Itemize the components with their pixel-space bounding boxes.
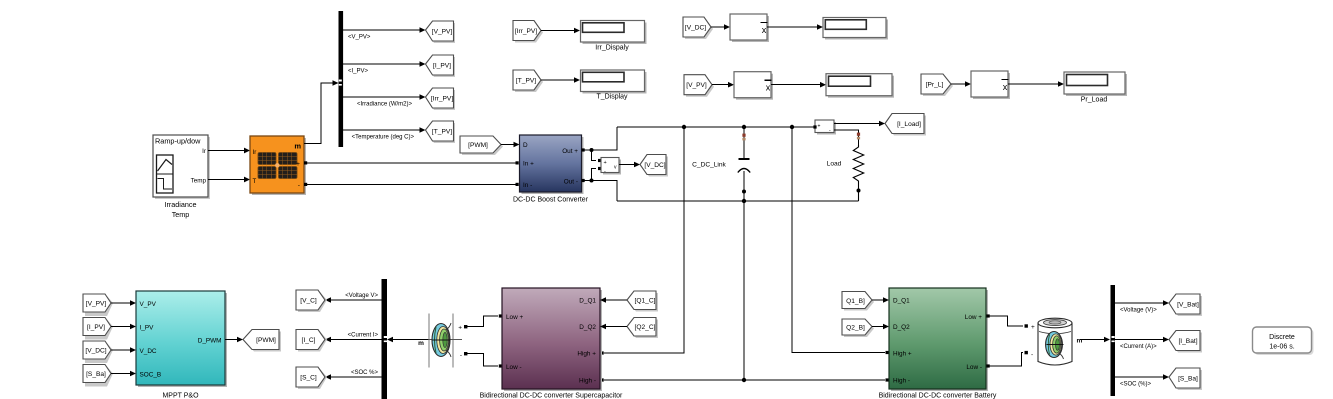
svg-text:<Temperature (deg C)>: <Temperature (deg C)> xyxy=(352,135,415,141)
bus selector 3 (battery measurements) xyxy=(1111,285,1116,396)
svg-text:D_Q2: D_Q2 xyxy=(579,324,596,331)
svg-text:Low -: Low - xyxy=(966,364,982,371)
wire DC link bottom bus xyxy=(617,200,859,202)
mean block U_mean2 xyxy=(734,72,773,100)
goto tag V_Bat xyxy=(1169,294,1202,316)
svg-text:I_PV: I_PV xyxy=(140,324,155,331)
svg-text:D: D xyxy=(523,142,528,149)
svg-text:m: m xyxy=(294,142,301,151)
svg-text:[I_C]: [I_C] xyxy=(302,337,316,344)
goto tag V_PV xyxy=(426,21,456,43)
wire I_PV to MPPT xyxy=(111,324,136,330)
svg-text:Low +: Low + xyxy=(965,314,982,321)
wire Q1_C to D_Q1 xyxy=(600,297,627,303)
wire capacitor leg down to High- rail xyxy=(743,201,745,380)
svg-text:<Current I>: <Current I> xyxy=(348,333,379,339)
from tag V_DC (top) xyxy=(683,17,713,39)
capacitor C_DC_Link xyxy=(692,127,750,201)
svg-text:Ir: Ir xyxy=(202,148,206,155)
mean block U_mean1 xyxy=(730,14,769,42)
bus selector 1 xyxy=(339,11,344,147)
svg-text:D_PWM: D_PWM xyxy=(198,337,222,344)
wire battery m to bus3 xyxy=(1077,337,1111,345)
wire CM to load resistor xyxy=(834,130,860,145)
from tag PWM (top) xyxy=(460,136,503,155)
wire bus3 SOC to S_Ba xyxy=(1115,374,1169,387)
from tag S_Ba (mppt) xyxy=(83,365,113,387)
goto tag V_C xyxy=(296,290,327,312)
svg-text:Low -: Low - xyxy=(506,364,522,371)
goto tag I_Load xyxy=(885,114,926,136)
svg-text:<I_PV>: <I_PV> xyxy=(348,69,369,75)
svg-text:Out -: Out - xyxy=(564,178,578,185)
wire V_DC to mean xyxy=(711,24,730,30)
wire bus2 Voltage to V_C xyxy=(325,293,382,303)
wire battery Low- to battery - xyxy=(987,351,1034,368)
from tag Q1_C xyxy=(627,291,658,312)
svg-text:D_Q1: D_Q1 xyxy=(893,297,910,304)
battery B1 xyxy=(1038,318,1072,365)
MPPT P&O block xyxy=(136,291,227,399)
goto tag Irr_PV xyxy=(426,88,456,110)
svg-text:[V_DC]: [V_DC] xyxy=(85,348,106,355)
svg-text:T: T xyxy=(253,178,257,185)
bus selector 2 (supercap measurements) xyxy=(382,279,388,399)
svg-text:[PWM]: [PWM] xyxy=(256,337,276,344)
wire PWM to boost D xyxy=(501,142,520,148)
DC-DC Boost Converter block xyxy=(513,135,589,204)
svg-text:+: + xyxy=(604,160,607,166)
node bottom bus / capacitor xyxy=(742,199,746,203)
svg-text:m: m xyxy=(418,340,424,347)
goto tag V_DC xyxy=(640,155,668,177)
svg-text:[V_DC]: [V_DC] xyxy=(644,162,665,169)
display V_PV mean xyxy=(826,74,894,98)
display V_DC mean xyxy=(823,18,888,40)
svg-text:+: + xyxy=(296,161,300,168)
svg-text:V_PV: V_PV xyxy=(140,301,157,308)
svg-text:D_Q1: D_Q1 xyxy=(579,297,596,304)
node top bus / capacitor xyxy=(742,125,746,129)
svg-text:x: x xyxy=(762,25,767,35)
svg-text:Discrete: Discrete xyxy=(1269,334,1295,341)
svg-text:[V_C]: [V_C] xyxy=(300,298,317,305)
wire mean2 to display xyxy=(771,82,826,88)
svg-text:[Irr_PV]: [Irr_PV] xyxy=(431,96,454,103)
wire supercap - to Low- xyxy=(460,352,502,368)
svg-text:[S_Ba]: [S_Ba] xyxy=(86,371,106,378)
svg-text:[V_DC]: [V_DC] xyxy=(685,25,706,32)
svg-text:[I_Load]: [I_Load] xyxy=(897,121,921,128)
resistor Load xyxy=(827,145,864,201)
svg-text:<Voltage (V)>: <Voltage (V)> xyxy=(1120,308,1157,314)
wire mean3 to display Pr_Load xyxy=(1008,81,1064,87)
from tag Pr_L xyxy=(921,74,953,96)
svg-text:Pr_Load: Pr_Load xyxy=(1081,97,1108,104)
wire DC link top bus xyxy=(617,126,815,128)
svg-text:Out +: Out + xyxy=(562,148,578,155)
svg-text:<Current (A)>: <Current (A)> xyxy=(1120,344,1157,350)
svg-text:Q2_B]: Q2_B] xyxy=(846,324,865,331)
svg-text:T_Display: T_Display xyxy=(596,94,628,101)
goto tag S_Ba xyxy=(1169,368,1202,390)
wire Pr_L to mean xyxy=(951,81,971,87)
svg-text:High +: High + xyxy=(893,350,912,357)
svg-text:High -: High - xyxy=(579,377,596,384)
goto tag PWM xyxy=(243,330,281,352)
wire Temp to PV xyxy=(208,177,250,183)
svg-text:Load: Load xyxy=(827,161,842,168)
svg-text:[T_PV]: [T_PV] xyxy=(516,78,536,85)
from tag Q2_C xyxy=(627,318,658,339)
svg-text:Q1_B]: Q1_B] xyxy=(846,298,865,305)
svg-text:-: - xyxy=(604,169,606,175)
svg-text:Irradiance: Irradiance xyxy=(165,200,197,209)
svg-text:[S_C]: [S_C] xyxy=(300,375,317,382)
svg-text:-: - xyxy=(1031,352,1033,359)
from tag V_PV (mppt) xyxy=(83,294,113,316)
goto tag I_Bat xyxy=(1169,331,1202,353)
svg-text:1e-06 s.: 1e-06 s. xyxy=(1269,344,1294,351)
wire supercap high leg (top bus down to High+) xyxy=(601,127,685,355)
svg-text:[S_Ba]: [S_Ba] xyxy=(1178,376,1198,383)
wire bus1 Irradiance xyxy=(343,94,426,107)
display Pr_Load xyxy=(1064,72,1127,104)
wire Irr_PV to display xyxy=(541,28,580,34)
svg-text:D_Q2: D_Q2 xyxy=(893,324,910,331)
wire V_DC to MPPT xyxy=(111,347,136,353)
PV Array block xyxy=(250,136,306,195)
goto tag I_PV xyxy=(426,55,456,77)
svg-text:High +: High + xyxy=(577,350,596,357)
wire branch to voltmeter - xyxy=(592,167,602,181)
wire PV m to bus selector xyxy=(304,80,339,143)
svg-text:V_DC: V_DC xyxy=(140,348,157,355)
from tag Q2_B xyxy=(842,319,874,337)
svg-text:Irr_Dispaly: Irr_Dispaly xyxy=(595,45,629,52)
wire V_PV to MPPT xyxy=(111,300,136,306)
wire VM to V_DC tag xyxy=(619,162,640,168)
svg-text:<Irradiance (W/m2)>: <Irradiance (W/m2)> xyxy=(357,102,413,108)
svg-text:<V_PV>: <V_PV> xyxy=(348,35,371,41)
wire branch to voltmeter + xyxy=(592,150,602,162)
svg-text:In -: In - xyxy=(523,182,532,189)
node top bus / battery leg xyxy=(790,125,794,129)
Discrete solver block xyxy=(1253,327,1314,355)
wire bus3 Voltage to V_Bat xyxy=(1115,300,1169,313)
from tag V_PV (top) xyxy=(684,75,714,97)
wire Ir to PV xyxy=(208,148,250,154)
wire High- rail between converters xyxy=(601,378,889,381)
wire bus1 I_PV xyxy=(343,61,426,74)
svg-text:[I_Bat]: [I_Bat] xyxy=(1178,338,1197,345)
wire bus1 Temperature xyxy=(343,127,426,140)
goto tag T_PV xyxy=(426,121,456,143)
wire Q2_C to D_Q2 xyxy=(600,324,627,330)
display Irr_Dispaly xyxy=(581,21,647,52)
from tag T_PV xyxy=(513,70,543,92)
node High- rail xyxy=(742,378,746,382)
svg-text:[T_PV]: [T_PV] xyxy=(432,129,452,136)
svg-text:[Q2_C]: [Q2_C] xyxy=(635,324,656,331)
Bidirectional DC-DC converter Supercapacitor block xyxy=(480,288,623,399)
wire CM i to I_Load tag xyxy=(834,121,885,127)
wire supercap m to bus2 xyxy=(387,337,429,347)
svg-text:[V_Bat]: [V_Bat] xyxy=(1177,302,1199,309)
wire bus2 SOC to S_C xyxy=(325,370,382,380)
svg-text:SOC_B: SOC_B xyxy=(140,371,162,378)
current measurement CM xyxy=(813,120,836,135)
svg-text:MPPT P&O: MPPT P&O xyxy=(162,393,199,399)
svg-text:<Voltage V>: <Voltage V> xyxy=(345,293,378,299)
svg-text:In +: In + xyxy=(523,161,534,168)
svg-text:m: m xyxy=(1077,337,1083,344)
node top bus / supercap leg xyxy=(682,125,686,129)
svg-text:DC-DC Boost Converter: DC-DC Boost Converter xyxy=(513,197,589,204)
svg-text:High -: High - xyxy=(893,377,910,384)
svg-text:Bidirectional DC-DC converter: Bidirectional DC-DC converter Battery xyxy=(879,393,997,399)
goto tag I_C xyxy=(296,330,327,352)
svg-text:[Irr_PV]: [Irr_PV] xyxy=(515,28,538,35)
supercapacitor SC1 xyxy=(429,314,462,368)
wire battery Low+ to battery + xyxy=(987,314,1036,331)
from tag I_PV (mppt) xyxy=(83,318,113,340)
wire MPPT D_PWM to PWM tag xyxy=(225,337,243,343)
wire Q1_B to D_Q1 xyxy=(872,297,889,303)
wire battery high leg (top bus down to High+) xyxy=(792,127,889,354)
svg-text:Bidirectional DC-DC converter: Bidirectional DC-DC converter Supercapac… xyxy=(480,393,623,399)
svg-text:[V_PV]: [V_PV] xyxy=(86,301,107,308)
Bidirectional DC-DC converter Battery block xyxy=(879,288,997,399)
svg-text:Temp: Temp xyxy=(172,210,190,219)
svg-text:Ir: Ir xyxy=(253,149,257,156)
svg-text:[I_PV]: [I_PV] xyxy=(433,63,451,70)
svg-text:Ramp-up/dow: Ramp-up/dow xyxy=(155,137,201,146)
svg-text:<SOC (%)>: <SOC (%)> xyxy=(1120,382,1152,388)
voltage measurement VM xyxy=(601,158,621,175)
wire boost Out- to DC link xyxy=(582,179,618,202)
wire V_PV to mean xyxy=(712,82,734,88)
goto tag S_C xyxy=(296,367,327,389)
from tag Q1_B xyxy=(842,292,874,311)
svg-text:C_DC_Link: C_DC_Link xyxy=(692,162,726,169)
svg-text:Temp: Temp xyxy=(191,178,207,185)
wire bus3 Current to I_Bat xyxy=(1115,337,1169,350)
svg-text:<SOC %>: <SOC %> xyxy=(351,370,379,376)
svg-text:+: + xyxy=(458,325,462,332)
svg-text:[PWM]: [PWM] xyxy=(468,142,488,149)
svg-text:x: x xyxy=(766,83,771,93)
svg-text:+: + xyxy=(818,124,821,130)
svg-text:[V_PV]: [V_PV] xyxy=(432,29,453,36)
svg-text:-: - xyxy=(298,182,300,189)
svg-text:[V_PV]: [V_PV] xyxy=(686,82,707,89)
wire bus1 V_PV xyxy=(343,27,426,40)
from tag Irr_PV xyxy=(513,21,543,43)
svg-text:+: + xyxy=(1031,324,1035,331)
from tag V_DC (mppt) xyxy=(83,341,113,363)
display T_Display xyxy=(581,70,647,101)
wire bus2 Current to I_C xyxy=(325,333,382,343)
wire PV + to boost In+ xyxy=(304,161,519,164)
mean block U_mean3 xyxy=(971,71,1010,99)
source block Irradiance Temp (Ramp-up/down) xyxy=(153,135,210,219)
wire supercap + to Low+ xyxy=(458,314,502,331)
wire T_PV to display xyxy=(541,77,580,83)
svg-text:x: x xyxy=(1003,82,1008,92)
wire S_Ba to MPPT xyxy=(111,371,136,377)
svg-text:[Q1_C]: [Q1_C] xyxy=(635,298,656,305)
svg-text:[Pr_L]: [Pr_L] xyxy=(926,82,944,89)
svg-text:-: - xyxy=(460,352,462,359)
wire mean1 to display xyxy=(767,24,823,30)
svg-text:[I_PV]: [I_PV] xyxy=(87,324,105,331)
wire Q2_B to D_Q2 xyxy=(872,324,889,330)
wire PV - to boost In- xyxy=(304,183,519,186)
svg-text:Low +: Low + xyxy=(506,314,523,321)
wire boost Out+ to DC link xyxy=(582,127,618,152)
